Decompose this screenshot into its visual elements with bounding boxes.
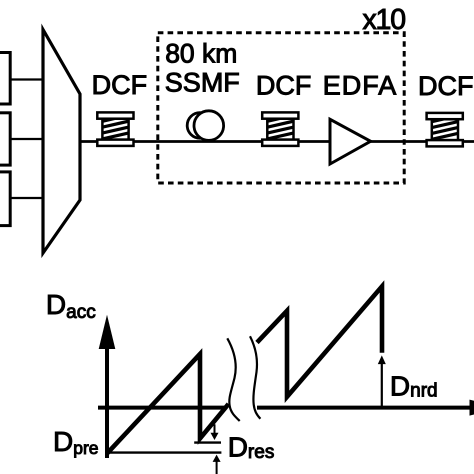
DCF coil 2 top flange <box>262 112 298 118</box>
svg-text:DCF: DCF <box>418 71 474 101</box>
axis break wavy line right <box>250 336 260 419</box>
DCF coil 1 hatching <box>100 115 132 140</box>
transmitter box 1 <box>0 53 10 105</box>
transmitter box 3 <box>0 172 10 226</box>
DCF coil 2 body <box>267 119 293 140</box>
SSMF fiber loop back circle <box>187 113 213 139</box>
svg-text:SSMF: SSMF <box>165 68 240 98</box>
svg-text:x10: x10 <box>363 4 406 36</box>
wire from transmitter box 1 to multiplexer <box>10 78 44 80</box>
axis break wavy line left <box>227 338 239 421</box>
fiber line from multiplexer to EDFA <box>80 140 330 143</box>
svg-text:Dacc: Dacc <box>46 289 96 323</box>
y-axis shaft <box>105 345 109 458</box>
dispersion sawtooth before break <box>108 354 229 453</box>
y-axis arrowhead <box>99 315 116 349</box>
DCF coil 3 top flange <box>427 113 463 119</box>
D_nrd arrow <box>381 363 383 406</box>
DCF coil 1 body <box>102 119 128 140</box>
wire from transmitter box 3 to multiplexer <box>10 197 44 199</box>
D_pre level line <box>107 451 221 453</box>
svg-text:80 km: 80 km <box>165 39 237 69</box>
dashed span box <box>158 33 404 183</box>
DCF coil 3 hatching <box>429 115 461 140</box>
multiplexer trapezoid <box>43 30 80 254</box>
D_res down arrow <box>214 424 216 434</box>
x-axis left segment <box>98 406 226 410</box>
svg-text:Dnrd: Dnrd <box>390 371 438 402</box>
fiber line after EDFA to right edge <box>371 140 474 143</box>
x-axis arrowhead <box>470 400 474 416</box>
svg-text:DCF: DCF <box>92 70 148 100</box>
transmitter box 2 <box>0 113 10 165</box>
DCF coil 1 top flange <box>97 112 133 118</box>
D_res upper tick line <box>194 441 221 443</box>
DCF coil 3 body <box>432 119 458 140</box>
DCF coil 2 bottom flange <box>262 140 298 146</box>
svg-text:DCF: DCF <box>256 71 312 101</box>
SSMF fiber loop front circle <box>194 111 224 141</box>
dispersion sawtooth after break <box>257 286 382 396</box>
D_res up arrow <box>216 462 218 474</box>
svg-text:EDFA: EDFA <box>323 71 398 101</box>
DCF coil 2 hatching <box>265 115 297 140</box>
svg-text:Dres: Dres <box>228 432 275 464</box>
EDFA amplifier triangle <box>330 119 371 164</box>
DCF coil 1 bottom flange <box>97 140 133 146</box>
wire from transmitter box 2 to multiplexer <box>10 138 44 140</box>
x-axis right segment <box>257 406 470 410</box>
DCF coil 3 bottom flange <box>427 140 463 146</box>
svg-text:Dpre: Dpre <box>53 426 99 458</box>
